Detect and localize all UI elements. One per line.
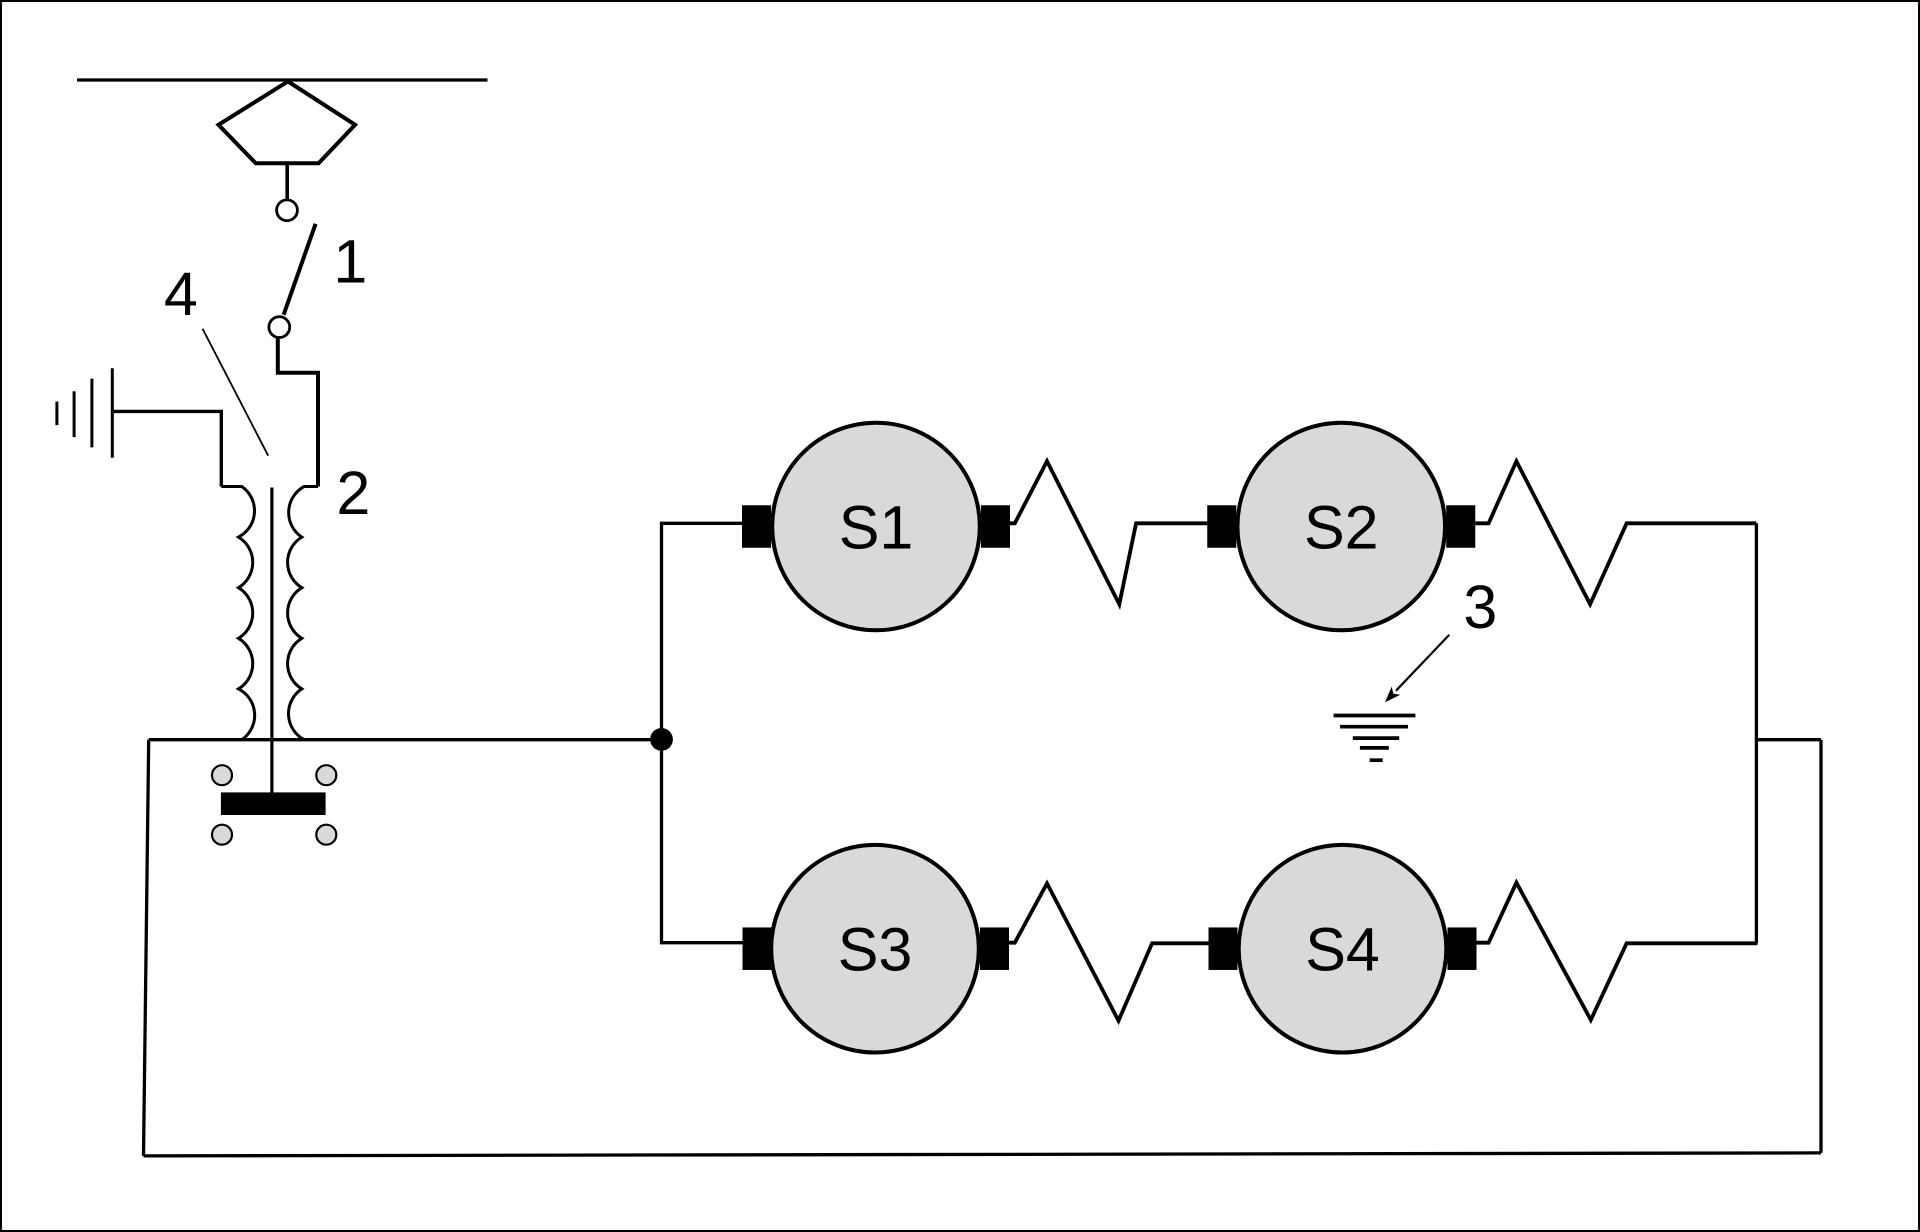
left return wire: [144, 740, 149, 1156]
svg-text:S1: S1: [839, 493, 914, 561]
svg-text:S2: S2: [1304, 493, 1379, 561]
overhead contact line: [77, 78, 488, 81]
transformer movable core (4): [270, 488, 273, 793]
slider contact bar: [221, 792, 326, 815]
wire ground to transformer: [112, 411, 221, 486]
wheel top-right: [316, 765, 336, 785]
wire junction to S1: [662, 523, 743, 739]
resistor after S1: [1010, 461, 1207, 604]
transformer winding left (2): [221, 487, 254, 740]
switch contact circle top: [277, 200, 298, 221]
right return vertical wire: [1819, 740, 1822, 1153]
arrowhead label 3: [1385, 687, 1400, 703]
resistor after S3: [1009, 883, 1209, 1020]
node junction dot: [650, 728, 673, 751]
svg-text:3: 3: [1463, 573, 1497, 641]
right connector wire: [1756, 738, 1821, 741]
wire switch to transformer primary: [278, 338, 318, 487]
pointer arrow label 3: [1396, 635, 1449, 691]
svg-text:2: 2: [336, 459, 370, 527]
pointer line label 4: [203, 329, 269, 456]
svg-text:S3: S3: [838, 916, 913, 984]
wire junction to S3: [662, 739, 744, 942]
motor S3: [743, 845, 1010, 1053]
svg-text:4: 4: [164, 260, 198, 328]
wheel bottom-left: [212, 825, 232, 845]
wheel top-left: [212, 765, 232, 785]
motor S4: [1209, 845, 1477, 1053]
wire pantograph to switch contact: [285, 163, 289, 199]
resistor after S2: [1475, 461, 1756, 604]
transformer winding right (2): [288, 487, 318, 740]
resistor after S4: [1477, 883, 1758, 1020]
ground symbol left: [57, 368, 112, 457]
svg-text:1: 1: [333, 228, 367, 296]
bottom return wire: [144, 1153, 1822, 1156]
wheel bottom-right: [316, 825, 336, 845]
switch contact circle bottom: [269, 317, 290, 338]
svg-text:S4: S4: [1305, 916, 1380, 984]
motor S1: [742, 423, 1010, 631]
switch blade 1: [284, 224, 316, 315]
ground symbol 3: [1334, 716, 1416, 761]
right mid vertical wire: [1755, 523, 1758, 943]
pantograph: [219, 81, 356, 163]
motor S2: [1207, 423, 1475, 631]
main wire transformer to junction: [149, 738, 662, 741]
